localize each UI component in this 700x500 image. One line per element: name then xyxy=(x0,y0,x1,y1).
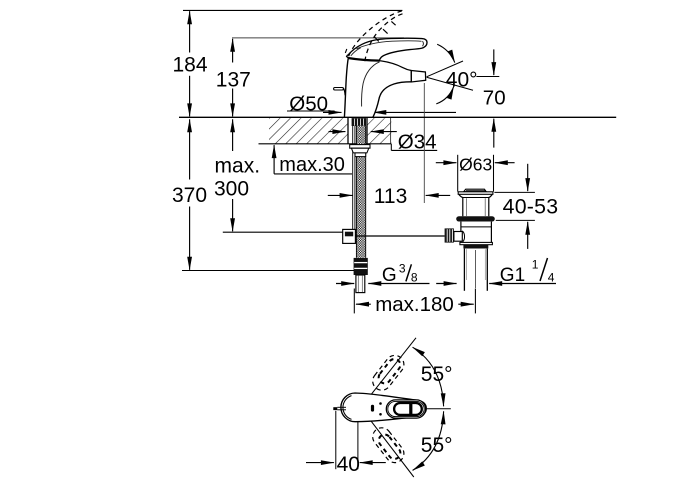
svg-text:Ø50: Ø50 xyxy=(289,93,328,116)
svg-text:Ø63: Ø63 xyxy=(459,154,492,174)
svg-text:8: 8 xyxy=(411,270,418,284)
svg-text:55°: 55° xyxy=(421,434,453,457)
svg-text:184: 184 xyxy=(172,54,207,77)
svg-text:G1: G1 xyxy=(500,265,525,286)
svg-text:max.30: max.30 xyxy=(279,154,345,176)
svg-text:113: 113 xyxy=(374,185,407,208)
svg-text:40-53: 40-53 xyxy=(503,194,559,218)
svg-text:3: 3 xyxy=(399,261,406,275)
svg-text:40: 40 xyxy=(337,453,360,476)
svg-text:max.: max. xyxy=(215,154,261,177)
svg-text:137: 137 xyxy=(216,68,251,91)
svg-text:max.180: max.180 xyxy=(375,293,454,316)
svg-text:300: 300 xyxy=(214,178,249,201)
svg-text:4: 4 xyxy=(548,271,555,285)
svg-text:40°: 40° xyxy=(446,68,478,91)
svg-text:1: 1 xyxy=(532,258,539,272)
svg-text:G: G xyxy=(382,265,397,286)
svg-text:370: 370 xyxy=(172,184,207,207)
svg-text:70: 70 xyxy=(483,86,506,109)
svg-text:Ø34: Ø34 xyxy=(398,130,437,153)
